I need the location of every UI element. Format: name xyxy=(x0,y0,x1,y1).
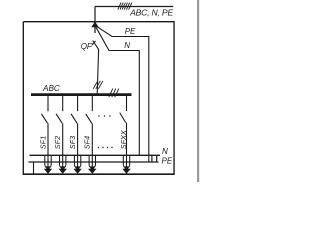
outgoing arrows SFXX xyxy=(122,166,130,173)
svg-text:ABC: ABC xyxy=(42,84,60,93)
svg-text:N: N xyxy=(162,147,168,156)
svg-text:SF2: SF2 xyxy=(53,136,62,149)
supply line ABC,N,PE xyxy=(95,6,173,8)
wire PE feed xyxy=(96,26,149,162)
outgoing arrows SF1 xyxy=(44,166,52,173)
branch SF4 xyxy=(86,96,93,168)
outgoing arrows SF3 xyxy=(73,166,81,173)
svg-text:PE: PE xyxy=(162,157,173,166)
wire N feed xyxy=(96,27,139,155)
svg-text:SFXX: SFXX xyxy=(119,129,128,149)
wire QF to busbar xyxy=(97,50,98,94)
svg-text:N: N xyxy=(124,41,130,50)
outgoing arrows SF4 xyxy=(88,166,96,173)
N busbar xyxy=(30,154,161,156)
branch SF2 xyxy=(56,96,63,168)
cable hatch marks xyxy=(118,3,132,10)
svg-text:ABC, N, PE: ABC, N, PE xyxy=(129,7,173,17)
three-phase slashes on QF wire xyxy=(93,81,103,89)
outgoing hook SF1 xyxy=(45,156,51,168)
frame right border xyxy=(197,0,199,182)
node junction arrow xyxy=(91,22,98,28)
branch SF3 xyxy=(71,96,78,168)
PE bond to enclosure xyxy=(33,162,35,175)
branch SF1 xyxy=(41,96,48,168)
outgoing arrows SF2 xyxy=(59,166,67,173)
svg-text:QF: QF xyxy=(81,42,93,51)
branch SFXX xyxy=(120,96,127,168)
svg-text:PE: PE xyxy=(125,27,136,36)
busbar ABC xyxy=(31,93,132,96)
three-phase slashes on busbar xyxy=(109,89,119,97)
enclosure xyxy=(23,22,174,175)
PE busbar xyxy=(29,161,159,163)
outgoing hook SF3 xyxy=(74,156,80,168)
N-PE link xyxy=(151,155,153,162)
outgoing hook SF2 xyxy=(59,156,65,168)
svg-text:SF4: SF4 xyxy=(83,136,92,149)
wire supply drop xyxy=(94,7,96,34)
breaker QF xyxy=(92,41,99,50)
svg-text:SF3: SF3 xyxy=(68,136,77,149)
svg-text:SF1: SF1 xyxy=(38,136,47,149)
outgoing hook SF4 xyxy=(89,156,95,168)
outgoing hook SFXX xyxy=(123,156,129,168)
ellipsis dots between SF4 and SFXX xyxy=(98,115,113,148)
